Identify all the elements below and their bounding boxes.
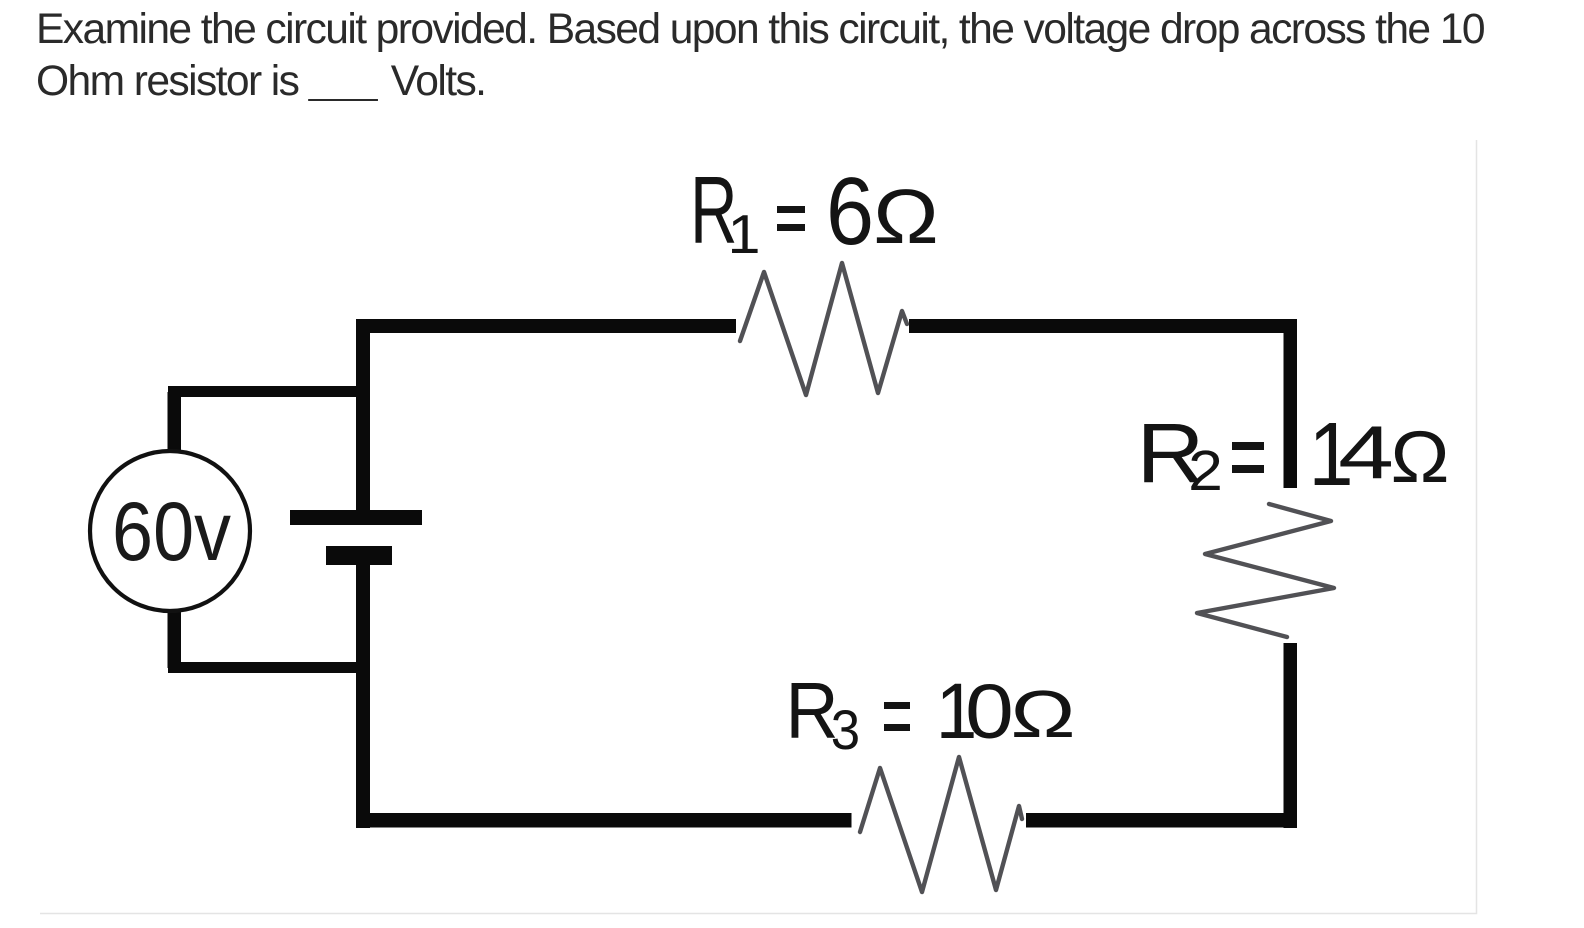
svg-text:3: 3: [831, 699, 860, 762]
svg-text:2: 2: [1188, 439, 1223, 502]
svg-text:0: 0: [965, 669, 1014, 755]
svg-text:4: 4: [1338, 410, 1394, 494]
svg-text:Ω: Ω: [1010, 678, 1075, 752]
svg-text:6: 6: [826, 159, 874, 265]
svg-text:60v: 60v: [112, 485, 231, 578]
svg-text:1: 1: [727, 204, 760, 265]
svg-text:Ω: Ω: [1390, 417, 1449, 499]
svg-text:Ω: Ω: [873, 174, 939, 260]
